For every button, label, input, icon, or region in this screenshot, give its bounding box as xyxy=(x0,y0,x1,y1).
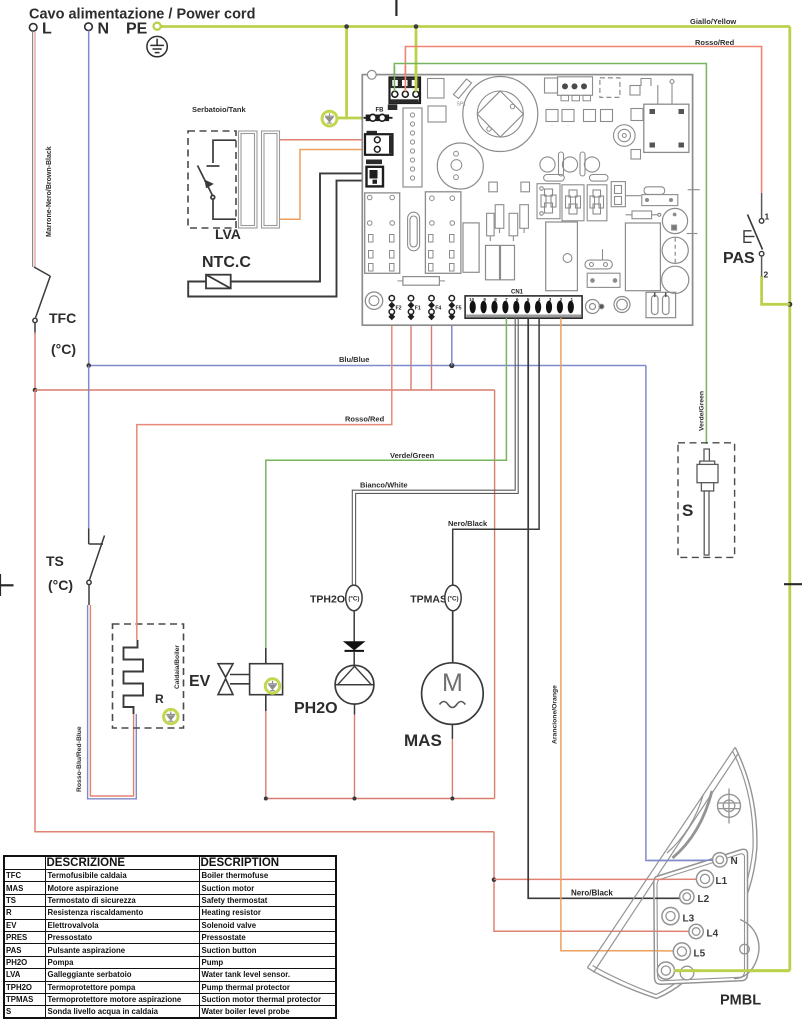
wire: red from TFC down to junction xyxy=(34,332,36,391)
page tick right xyxy=(784,583,802,585)
terminal L3 xyxy=(662,908,679,925)
svg-text:5: 5 xyxy=(527,297,530,302)
wire: Rosso-Blu/Red-Blue pair TS to heater xyxy=(88,605,137,799)
svg-text:EV: EV xyxy=(189,673,211,690)
svg-text:PAS: PAS xyxy=(723,250,755,267)
diode xyxy=(343,641,366,651)
wire: orange end at L5 xyxy=(655,950,675,952)
electrolytic cap 3 xyxy=(662,266,689,293)
wire: Arancione/Orange from CN1 pin2 to PMBL L5 xyxy=(561,318,675,951)
small relay center-bottom xyxy=(585,249,620,287)
terminal L1 xyxy=(696,870,713,887)
svg-text:MAS: MAS xyxy=(404,731,442,750)
electrolytic cap 2 xyxy=(662,237,688,263)
svg-text:F4: F4 xyxy=(435,306,441,312)
right small parts cluster xyxy=(626,187,678,219)
inner wedge arc xyxy=(673,791,713,858)
wire: yellow-green right vertical xyxy=(788,27,791,971)
connector CN1 xyxy=(465,296,582,318)
svg-text:L2: L2 xyxy=(698,894,710,905)
page tick top xyxy=(395,0,397,16)
svg-text:8: 8 xyxy=(494,297,497,302)
water level probe S dashed box xyxy=(678,443,735,558)
wire: tank plate top to PCB connector (red) xyxy=(280,139,372,141)
pump thermal protector TPH2O xyxy=(310,585,362,611)
wire: Verde/Green from CN1 pin7 to EV xyxy=(266,318,507,648)
center tall rect xyxy=(463,223,479,272)
node: junction at L1 branch xyxy=(492,877,497,882)
svg-text:F1: F1 xyxy=(415,306,421,312)
node: yg junction 2 xyxy=(414,24,419,29)
tank connector 2-pin xyxy=(365,131,393,155)
center vertical resistors xyxy=(487,182,530,241)
wire: black from CN1 pin5 to PMBL L2 xyxy=(528,318,681,898)
svg-text:PH2O: PH2O xyxy=(294,700,338,717)
svg-text:L4: L4 xyxy=(707,929,719,940)
top-right small brackets xyxy=(630,79,674,105)
svg-text:Nero/Black: Nero/Black xyxy=(448,519,488,528)
PCB mounting hole bottom-left xyxy=(365,292,382,309)
wire: bottom rail xyxy=(266,798,495,800)
svg-text:Verde/Green: Verde/Green xyxy=(390,451,435,460)
terminal L5 xyxy=(673,943,690,960)
wire: red horizontal y390 to F1/F4 xyxy=(35,389,495,391)
svg-text:(°C): (°C) xyxy=(447,595,458,602)
svg-text:3: 3 xyxy=(549,297,552,302)
svg-text:FB: FB xyxy=(376,108,385,114)
big white block right-center xyxy=(546,222,578,291)
svg-text:S: S xyxy=(682,501,693,520)
legend table xyxy=(3,855,337,1019)
svg-text:F2: F2 xyxy=(396,306,402,312)
svg-text:4: 4 xyxy=(538,297,541,302)
pin header strip xyxy=(403,108,422,187)
svg-text:PMBL: PMBL xyxy=(720,993,761,1009)
node: yg junction 1 xyxy=(344,24,349,29)
power connector K1 xyxy=(388,66,420,110)
optocoupler package 3 xyxy=(587,175,608,221)
wire: yellow-green stub from ground bolt xyxy=(336,117,347,120)
svg-text:Rosso/Red: Rosso/Red xyxy=(695,38,735,47)
capacitor circles row xyxy=(540,152,600,176)
wire: red end at L4 xyxy=(655,930,690,932)
svg-text:TFC: TFC xyxy=(49,310,76,326)
top-right bracket xyxy=(545,78,558,93)
wire: L brown-black pair down to TFC xyxy=(33,31,35,267)
terminal post F5 xyxy=(448,296,461,321)
svg-text:Arancione/Orange: Arancione/Orange xyxy=(552,685,559,744)
ground bolt near FB xyxy=(322,111,337,126)
small bracket square 1 xyxy=(428,79,445,99)
wire: pump down to rail xyxy=(354,704,356,714)
wire: yellow-green overlay to ground terminal xyxy=(674,969,790,972)
svg-text:7: 7 xyxy=(505,297,508,302)
svg-text:L5: L5 xyxy=(694,949,706,960)
wire: Blu/Blue horizontal xyxy=(89,365,646,367)
optocoupler package 2 xyxy=(562,185,584,221)
node: junction L/TFC at y390 xyxy=(33,388,38,393)
trimmer concentric xyxy=(614,125,636,147)
svg-text:Serbatoio/Tank: Serbatoio/Tank xyxy=(192,105,246,114)
wire: red from PCB connector pin2 to PAS xyxy=(405,47,761,194)
chord diagonal double xyxy=(588,748,736,968)
ground symbol under PE xyxy=(147,36,167,56)
svg-text:L: L xyxy=(42,21,52,38)
wire: yellow-green end at ground xyxy=(666,969,700,972)
page tick left xyxy=(0,574,14,596)
svg-text:LVA: LVA xyxy=(215,226,241,242)
washer bottom right xyxy=(586,297,631,314)
outer edge double xyxy=(587,747,757,998)
suction button PAS xyxy=(723,193,770,280)
svg-text:TPH2O: TPH2O xyxy=(310,594,345,606)
PCB control board xyxy=(362,66,699,325)
suction motor MAS xyxy=(422,663,484,725)
motor bracket PMBL xyxy=(587,747,757,998)
terminal L2 xyxy=(680,890,694,904)
transformer big circle xyxy=(463,77,538,152)
terminal PE xyxy=(126,21,161,38)
node: junction blue at F5 xyxy=(449,363,454,368)
optocoupler package 1 xyxy=(537,175,564,219)
tank level plate 1 xyxy=(239,131,258,228)
electrolytic cap 1 xyxy=(662,208,687,233)
svg-text:6: 6 xyxy=(516,297,519,302)
bolt top xyxy=(718,794,741,817)
svg-text:1: 1 xyxy=(765,212,770,222)
wire: NTC left loop to K5 pin2 xyxy=(188,181,366,297)
svg-text:L1: L1 xyxy=(716,876,728,887)
node: rail junction PH2O xyxy=(353,797,357,801)
suction motor thermal protector TPMAS xyxy=(410,585,461,611)
float switch LVA xyxy=(198,140,237,219)
wire: TPMAS to motor xyxy=(452,611,454,663)
wire: Bianco/White pair from CN1 pin6 to TPH2O xyxy=(352,318,518,585)
wire: F4 red down right side to rail xyxy=(494,390,496,799)
small transistor block xyxy=(611,182,641,207)
wire: Nero/Black from CN1 pin4 to TPMAS xyxy=(453,318,539,585)
svg-text:Rosso-Blu/Red-Blue: Rosso-Blu/Red-Blue xyxy=(76,726,83,792)
wire: F1 red stub xyxy=(410,319,412,390)
svg-text:1: 1 xyxy=(571,297,574,302)
svg-text:PE: PE xyxy=(126,21,148,38)
wire: motor down to rail xyxy=(451,724,453,739)
fuse FB xyxy=(364,114,393,121)
thermistor NTC.C box xyxy=(206,275,231,289)
lug bottom right xyxy=(734,920,759,979)
capacitor oval xyxy=(408,212,420,251)
resistor squares row xyxy=(546,109,643,160)
terminal ground xyxy=(680,966,694,980)
buzzer circle xyxy=(437,143,483,189)
wire: F4 red stub xyxy=(431,319,433,390)
resistor horizontal bottom-left xyxy=(398,277,446,286)
svg-text:TS: TS xyxy=(46,553,64,569)
svg-text:(°C): (°C) xyxy=(348,595,359,602)
svg-text:2: 2 xyxy=(764,270,769,280)
svg-text:Caldaia/Boiler: Caldaia/Boiler xyxy=(174,645,181,689)
svg-text:L3: L3 xyxy=(683,914,695,925)
node: junction blue at N column xyxy=(86,363,91,368)
wire: F5 blue stub xyxy=(451,319,453,366)
PCB mounting hole top-left xyxy=(367,70,376,79)
tank dashed box xyxy=(188,131,236,228)
svg-text:NTC.C: NTC.C xyxy=(202,254,251,271)
tank level plate 2 xyxy=(262,131,280,228)
svg-text:Giallo/Yellow: Giallo/Yellow xyxy=(690,17,736,26)
wire: red from F2 to heater top xyxy=(137,319,392,640)
fuse holder bottom right xyxy=(646,292,676,317)
wire: green from PCB connector pin1 to S probe xyxy=(394,64,706,445)
NTC connector K5 xyxy=(366,160,383,187)
relay left 2 xyxy=(425,192,461,273)
thermofuse TFC xyxy=(33,267,51,334)
wire: PE yellow-green horizontal xyxy=(161,25,790,28)
boiler dashed box Caldaia/Boiler xyxy=(113,624,184,728)
svg-text:Verde/Green: Verde/Green xyxy=(699,391,706,431)
svg-text:N: N xyxy=(98,21,110,38)
wire: yellow-green to PMBL ground xyxy=(666,969,790,972)
wire: N blue down xyxy=(88,31,90,366)
svg-text:CN1: CN1 xyxy=(511,290,524,296)
relay top right xyxy=(644,104,689,152)
node: rail junction EV xyxy=(264,797,268,801)
relay right K block xyxy=(625,223,660,291)
terminal L4 xyxy=(689,924,703,938)
wire: tank plate bottom to PCB connector (orange) xyxy=(280,150,372,220)
svg-text:N: N xyxy=(731,856,738,867)
safety thermostat TS xyxy=(87,529,105,606)
wire: EV red down to rail xyxy=(265,711,267,799)
terminal N xyxy=(713,853,727,867)
svg-text:9: 9 xyxy=(483,297,486,302)
terminal post F1 xyxy=(408,296,421,321)
top-right 3-dot connector xyxy=(558,77,593,101)
node: yg junction at PAS branch xyxy=(787,302,792,307)
terminal post F4 xyxy=(428,296,441,321)
wire: blue end at N xyxy=(648,859,714,861)
ground bolt at boiler xyxy=(164,709,178,723)
wire: blue down to PMBL N xyxy=(646,366,714,861)
probe S body xyxy=(697,449,718,555)
terminal post F2 xyxy=(388,296,401,321)
wire: yg branch to PAS pin2 xyxy=(762,276,790,304)
svg-text:2: 2 xyxy=(560,297,563,302)
wire: feed down to L1/L4 junction xyxy=(494,832,696,932)
svg-text:Rosso/Red: Rosso/Red xyxy=(345,415,385,424)
wire: L red down left edge to PMBL feed xyxy=(35,390,494,832)
PCB right edge ticks xyxy=(687,190,700,234)
varistor SP1 slanted xyxy=(454,79,472,99)
wire: yellow-green branch to fuse FB xyxy=(347,27,364,119)
node: rail junction MAS xyxy=(450,797,454,801)
wire: TPH2O to diode xyxy=(353,611,355,643)
solenoid valve EV xyxy=(189,648,283,711)
terminal N xyxy=(85,21,109,38)
heating resistor R element xyxy=(124,640,144,714)
svg-text:(°C): (°C) xyxy=(48,577,73,593)
terminal labels N L1-L5 xyxy=(683,856,738,960)
wire: NTC right to K5 pin1 xyxy=(231,173,366,281)
terminal L xyxy=(29,21,52,38)
svg-text:Nero/Black: Nero/Black xyxy=(571,889,613,898)
terminal block xyxy=(654,849,748,984)
wire: black end at L2 xyxy=(655,897,681,899)
svg-text:10: 10 xyxy=(469,297,475,302)
center two rects xyxy=(486,245,500,279)
svg-text:M: M xyxy=(442,669,463,697)
svg-text:F5: F5 xyxy=(456,306,462,312)
wire: red to PMBL L1 xyxy=(494,878,698,880)
small bracket square 2 xyxy=(428,106,446,122)
svg-text:Marrone-Nero/Brown-Black: Marrone-Nero/Brown-Black xyxy=(46,146,53,237)
wire: blue down to TS xyxy=(88,366,90,529)
wire: red end at L1 xyxy=(655,878,698,880)
svg-text:Blu/Blue: Blu/Blue xyxy=(339,355,369,364)
svg-text:(°C): (°C) xyxy=(51,341,76,357)
svg-text:TPMAS: TPMAS xyxy=(410,594,447,606)
relay left 1 xyxy=(365,193,400,273)
svg-text:Bianco/White: Bianco/White xyxy=(360,481,408,490)
pump PH2O xyxy=(335,665,374,704)
top-right dashed square xyxy=(600,78,620,98)
wire: diode to pump xyxy=(353,651,355,666)
svg-text:R: R xyxy=(155,692,164,706)
PCB outline xyxy=(362,75,692,326)
wire: yellow-green branch to PCB connector pin3 xyxy=(415,27,418,100)
